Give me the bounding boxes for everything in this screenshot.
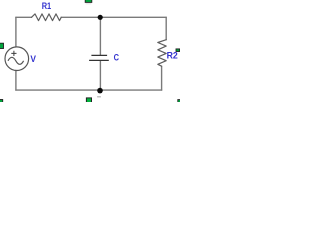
ground bar remnant below bottom junction: [97, 96, 101, 97]
svg-text:R2: R2: [167, 51, 178, 62]
node marker green box bottom-left: [0, 100, 3, 104]
svg-text:R1: R1: [42, 1, 52, 12]
junction dot bottom: [97, 88, 103, 94]
capacitor C top plate: [91, 54, 107, 56]
node marker green box top-right (R2 node): [176, 49, 180, 52]
faint smudge below top-center marker: [86, 3, 92, 4]
voltage source plus sign: [11, 51, 16, 56]
node marker green box bottom-center (ground node): [86, 98, 91, 104]
wire capacitor branch lower: [99, 61, 101, 90]
wire source bottom lead: [15, 71, 17, 91]
junction dot top: [98, 15, 103, 20]
resistor R1: [32, 14, 62, 21]
svg-text:V: V: [30, 54, 36, 65]
node marker green box left (source node): [0, 43, 4, 48]
voltage source V circle: [5, 47, 29, 71]
svg-text:C: C: [114, 53, 119, 64]
wire R2 bottom lead: [161, 66, 163, 90]
wire top-left horizontal segment: [16, 16, 32, 18]
wire top-right horizontal segment: [61, 16, 166, 18]
resistor R2: [158, 40, 166, 66]
voltage source sine wave: [8, 57, 24, 64]
wire left vertical: [15, 17, 17, 47]
node marker green box bottom-right corner: [178, 100, 182, 104]
wire bottom horizontal: [16, 89, 162, 91]
wire right vertical: [165, 17, 167, 39]
capacitor C bottom plate: [89, 59, 109, 61]
wire capacitor branch upper: [99, 17, 101, 55]
node marker green box top-center: [85, 0, 92, 2]
